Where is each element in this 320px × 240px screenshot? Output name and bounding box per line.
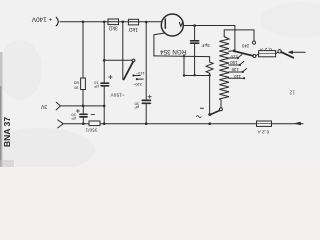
capacitor C1 10uF (101, 82, 109, 84)
node 184-56 (183, 55, 185, 57)
node rail-104 (103, 21, 106, 24)
switch S1 lever (124, 62, 133, 80)
node 104-60 (103, 59, 106, 62)
switch S4 AC contact (219, 108, 222, 111)
mains lead bottom (272, 123, 304, 125)
edge shading (0, 52, 3, 167)
svg-text:+ 140V: + 140V (31, 16, 52, 23)
winding bottom stub (219, 99, 221, 108)
contact 110 (132, 74, 134, 76)
svg-text:220: 220 (230, 54, 238, 59)
wire vertical 104 (103, 22, 105, 61)
fuse F1 0.2A (256, 54, 259, 56)
resistor R3 30kOhm (81, 78, 86, 90)
wire B+ drop to 220 tap (234, 26, 236, 51)
svg-text:3V: 3V (40, 103, 47, 109)
node 104-123 (103, 122, 106, 125)
node rail-122 (122, 21, 125, 24)
capacitor C2 20uF (82, 106, 84, 114)
terminal out2 (58, 120, 64, 128)
svg-text:3kΩ: 3kΩ (108, 25, 117, 31)
node 104-106 (103, 105, 106, 108)
wire 3V to nodes (60, 105, 104, 107)
svg-text:30: 30 (73, 86, 78, 91)
wire hum tap (184, 56, 210, 75)
capacitor C3 20uF (142, 99, 150, 101)
svg-text:5µF: 5µF (201, 43, 209, 48)
terminal 3V (56, 102, 60, 110)
rectifier tube U1 RGN354 (161, 14, 183, 36)
terminal +140V (56, 17, 58, 26)
mains lead top (293, 51, 306, 53)
resistor R5 (206, 57, 213, 76)
resistor R1 3kOhm (108, 19, 119, 25)
node 83-123 (82, 122, 85, 125)
svg-text:kΩ: kΩ (74, 81, 79, 86)
wire top rail (60, 21, 162, 23)
resistor R4 350/1 (89, 121, 100, 126)
node 5uF-top (193, 24, 196, 27)
wire bottom rail (100, 123, 256, 125)
node 194-75 (193, 74, 195, 76)
wire B+ top (183, 25, 235, 27)
node 146-123 (145, 122, 148, 125)
svg-text:1kΩ: 1kΩ (129, 26, 138, 32)
label minus (200, 107, 203, 109)
node rail-83 (82, 21, 85, 24)
tap 220 (229, 50, 235, 52)
switch S1 DC selector pivot (132, 59, 135, 62)
svg-text:BNA 37: BNA 37 (2, 117, 12, 147)
tap bottom (229, 77, 244, 79)
svg-text:350/1: 350/1 (85, 128, 97, 133)
transformer winding T1 (219, 37, 229, 99)
resistor R2 1kOhm (128, 19, 138, 25)
paper mottle (0, 128, 95, 172)
wire 30k drop (82, 22, 84, 78)
tap 150 (229, 57, 237, 59)
svg-text:240: 240 (241, 44, 249, 49)
wire selector feed (104, 59, 132, 61)
contact 220 (136, 78, 138, 80)
contact 240 (252, 41, 255, 44)
svg-text:135: 135 (231, 67, 239, 72)
svg-text:RGN 354: RGN 354 (160, 48, 187, 55)
svg-text:110−: 110− (135, 71, 144, 76)
svg-text:~150V: ~150V (110, 93, 125, 98)
wire 122 drop (122, 22, 124, 80)
tap 135 (229, 64, 240, 66)
svg-text:0,2 A: 0,2 A (257, 129, 269, 134)
wire vertical 146 (145, 22, 147, 100)
switch S4 lever (210, 111, 220, 115)
svg-text:0,2 A: 0,2 A (259, 47, 272, 52)
wire tube filament to bus (154, 33, 165, 56)
wire bottom rail left (63, 123, 89, 125)
paper background (0, 0, 320, 167)
wire heater bus horizontal (154, 55, 210, 58)
fuse F2 0.2A (257, 121, 272, 126)
node 209-123 (208, 122, 211, 125)
svg-text:µF: µF (71, 116, 76, 121)
node 83-105 (82, 105, 85, 108)
capacitor C4 5uF (191, 40, 199, 42)
node 184-75 (183, 74, 185, 76)
svg-text:12: 12 (289, 88, 295, 94)
node rail-146 (145, 21, 148, 24)
wire 5uF drop (194, 26, 196, 40)
label AC tilde (196, 116, 201, 118)
switch S3 mains (276, 52, 278, 53)
svg-text:µF: µF (134, 105, 139, 110)
switch S2 voltage selector lever (235, 51, 253, 56)
tap 110 (229, 71, 242, 73)
wire R5 to switch (209, 75, 211, 114)
node 209-75 (208, 74, 210, 76)
svg-text:µF: µF (93, 85, 98, 90)
svg-text:150: 150 (230, 60, 238, 65)
svg-text:220−: 220− (132, 82, 142, 87)
wire winding top to 240 (224, 30, 254, 41)
